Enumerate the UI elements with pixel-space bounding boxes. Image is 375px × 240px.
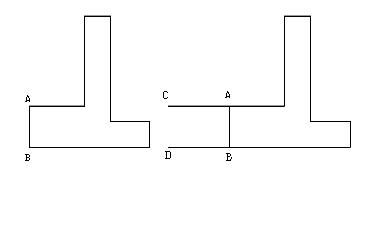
label B (right figure) [226, 153, 232, 161]
line CA (top edge extended to C) [168, 106, 285, 108]
line DB (bottom edge extended to D) [168, 147, 351, 149]
label B (left figure) [25, 154, 30, 161]
label C [163, 91, 168, 99]
figure 1 top-edge AA shoulder rows [29, 15, 111, 106]
figure 2 outline (T-shaped block, right, open at left) [285, 17, 351, 148]
figure 2 top-edge AA shoulder row [284, 15, 311, 16]
figure 1 outline (T-shaped block, left) [30, 17, 150, 148]
label D [165, 151, 171, 159]
segment AB (internal vertical) [229, 107, 231, 148]
label A (right figure) [225, 91, 230, 98]
label A (left figure) [25, 95, 30, 102]
line CA AA shoulder row [168, 105, 285, 106]
